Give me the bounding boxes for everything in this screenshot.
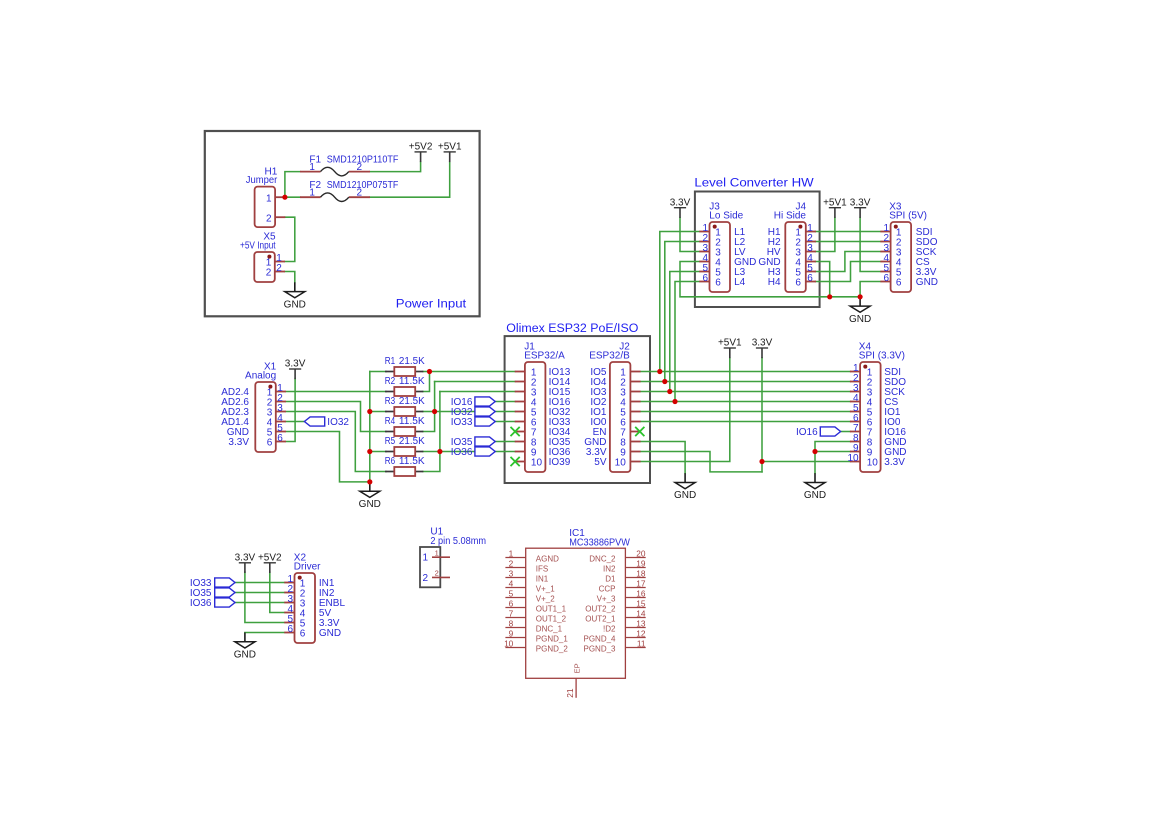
svg-text:3.3V: 3.3V: [228, 437, 249, 448]
svg-text:2: 2: [266, 268, 272, 279]
svg-text:9: 9: [509, 629, 514, 639]
wire X4.9 GND: [815, 451, 850, 453]
svg-text:11.5K: 11.5K: [399, 376, 425, 387]
ground GND (level conv): [849, 297, 871, 325]
frame Power Input box: [205, 131, 480, 316]
svg-text:R1: R1: [385, 356, 396, 367]
net flag IO36 (to J1.9): [475, 447, 495, 456]
U1 pin stubs: [432, 556, 450, 558]
svg-text:EP: EP: [572, 663, 581, 673]
svg-text:CCP: CCP: [599, 585, 616, 594]
svg-text:2: 2: [435, 569, 439, 578]
svg-text:V+_2: V+_2: [536, 595, 555, 604]
svg-text:1: 1: [266, 193, 272, 204]
wire IO0 row J2.6 to X4.6: [641, 421, 850, 423]
svg-text:DNC_1: DNC_1: [536, 625, 563, 634]
svg-text:SPI (5V): SPI (5V): [889, 211, 927, 222]
svg-text:D1: D1: [605, 575, 616, 584]
svg-text:6: 6: [287, 624, 293, 635]
svg-text:OUT1_2: OUT1_2: [536, 615, 567, 624]
resistor R4 11.5K: [385, 416, 425, 436]
svg-text:Level Converter HW: Level Converter HW: [694, 176, 814, 190]
no-connect J1.7: [511, 427, 520, 436]
svg-text:GND: GND: [284, 299, 306, 310]
svg-text:16: 16: [636, 589, 646, 599]
net flag IO32 (to X1.4): [304, 417, 324, 426]
resistor R1 21.5K: [385, 356, 425, 376]
svg-text:3.3V: 3.3V: [285, 359, 306, 370]
svg-text:6: 6: [509, 599, 514, 609]
svg-text:10: 10: [615, 458, 627, 469]
junction SDI row / J3.1: [657, 369, 662, 374]
svg-text:!D2: !D2: [603, 625, 616, 634]
svg-text:11.5K: 11.5K: [399, 456, 425, 467]
svg-text:2: 2: [266, 213, 272, 224]
resistor R2 11.5K: [385, 376, 425, 396]
svg-text:DNC_2: DNC_2: [589, 555, 616, 564]
J4 pin stubs: [806, 231, 816, 233]
svg-text:12: 12: [636, 629, 646, 639]
connector U1 2 pin 5.08mm: [420, 526, 486, 587]
connector J3: [699, 202, 756, 292]
wire node to J1.2 IO14: [435, 381, 515, 383]
J2 pin stubs: [630, 371, 640, 373]
resistor R3 21.5K: [385, 396, 425, 416]
svg-text:+5V1: +5V1: [718, 338, 742, 349]
net flag IO36 (to X2.3): [215, 598, 235, 607]
wire CS row J2.4 to X4.4: [641, 401, 850, 403]
svg-text:8: 8: [509, 619, 514, 629]
svg-text:R2: R2: [385, 376, 396, 387]
wire R1 right to node: [423, 371, 429, 373]
connector X3: [880, 202, 938, 292]
connector X2: [284, 553, 345, 643]
svg-text:ESP32/B: ESP32/B: [589, 351, 630, 362]
power +5V2 (X2): [258, 552, 282, 573]
svg-text:PGND_3: PGND_3: [583, 645, 616, 654]
connector J4: [758, 202, 816, 292]
wire R5 right to node: [423, 451, 440, 453]
wire X1.2 AD2.6 to R4: [287, 402, 387, 432]
wire X3.4 CS to J4.6: [816, 262, 881, 282]
X3 pin stubs: [880, 231, 890, 233]
wire 3.3V to X2.5: [245, 572, 284, 623]
svg-text:14: 14: [636, 609, 646, 619]
wire node to J1.1 IO13: [430, 371, 515, 373]
svg-text:21.5K: 21.5K: [399, 436, 425, 447]
X5 pin-1 marker: [267, 255, 271, 259]
svg-text:21.5K: 21.5K: [399, 356, 425, 367]
wire H1.1 to F2.1: [285, 196, 300, 198]
svg-text:2: 2: [509, 559, 514, 569]
wire R1/R3/R5 GND vertical: [369, 372, 371, 482]
svg-text:H4: H4: [768, 277, 781, 288]
junction CS row / J3.6: [672, 399, 677, 404]
power +5V2 (power input): [409, 142, 433, 163]
svg-text:3: 3: [509, 569, 514, 579]
frame Olimex ESP32 PoE/ISO box: [505, 336, 650, 483]
IC1 pin stubs and numbers: [505, 557, 525, 559]
svg-text:+5V2: +5V2: [258, 552, 282, 563]
svg-text:17: 17: [636, 579, 646, 589]
svg-text:7: 7: [509, 609, 514, 619]
svg-text:Power Input: Power Input: [396, 296, 467, 310]
wire IO1 row J2.5 to X4.5: [641, 411, 850, 413]
svg-text:6: 6: [300, 629, 306, 640]
svg-text:3.3V: 3.3V: [884, 457, 905, 468]
power +5V1 (esp32): [718, 338, 742, 359]
svg-text:OUT2_1: OUT2_1: [585, 615, 616, 624]
net flag IO16 (to X4.7): [820, 427, 840, 436]
svg-text:OUT2_2: OUT2_2: [585, 605, 616, 614]
svg-text:GND: GND: [804, 490, 826, 501]
svg-text:SMD1210P110TF: SMD1210P110TF: [327, 155, 399, 166]
svg-text:2: 2: [357, 188, 363, 199]
no-connect J2.7: [635, 427, 644, 436]
svg-text:1: 1: [309, 188, 315, 199]
svg-text:PGND_1: PGND_1: [536, 635, 569, 644]
wire H1.2 to X5.1: [285, 217, 295, 261]
svg-text:GND: GND: [849, 314, 871, 325]
wire R5 left: [370, 451, 386, 453]
wire F2.2 to +5V1: [370, 162, 450, 197]
svg-text:ESP32/A: ESP32/A: [524, 351, 565, 362]
power +5V1 (power input): [438, 142, 462, 163]
svg-text:6: 6: [277, 433, 283, 444]
ground GND (X2): [234, 633, 256, 661]
IC1 pin 21 stub: [575, 678, 577, 698]
svg-text:R6: R6: [385, 456, 396, 467]
svg-text:2: 2: [357, 162, 363, 173]
wire 3.3V to X1.6: [287, 379, 296, 442]
X2 pin-1 marker: [298, 576, 302, 580]
svg-text:18: 18: [636, 569, 646, 579]
connector X1: [221, 362, 286, 452]
frame Level Converter HW box: [695, 192, 820, 308]
wire H1.1 to F1.1: [285, 172, 300, 198]
wire IO36 flag to X2.3: [235, 602, 284, 604]
svg-text:3.3V: 3.3V: [752, 338, 773, 349]
svg-text:R5: R5: [385, 436, 396, 447]
wire 3.3V to J3.3: [680, 218, 699, 252]
junction R divider GND / R3: [367, 409, 372, 414]
wire X1.5 GND: [287, 432, 370, 482]
svg-text:IFS: IFS: [536, 565, 548, 574]
wire X4.8 GND down: [815, 442, 850, 474]
J3 pin-1 marker: [713, 225, 717, 229]
svg-text:IN2: IN2: [603, 565, 616, 574]
wire X1.3 AD2.3 to R6: [287, 412, 387, 472]
svg-text:21.5K: 21.5K: [399, 396, 425, 407]
wire IO33 flag to J1.6: [495, 421, 515, 423]
svg-text:AGND: AGND: [536, 555, 559, 564]
svg-text:+5V2: +5V2: [409, 142, 433, 153]
wire X5.2 to GND: [285, 272, 295, 283]
wire IO36 flag to J1.9: [495, 451, 515, 453]
X3 pin-1 marker: [894, 225, 898, 229]
svg-text:1: 1: [509, 549, 514, 559]
X4 pin-1 marker: [863, 365, 867, 369]
wire IO33 flag to X2.1: [235, 582, 284, 584]
svg-text:IO16: IO16: [796, 427, 818, 438]
wire J2.9 3.3V route: [641, 452, 762, 472]
svg-text:IO33: IO33: [451, 417, 473, 428]
connector J2: [584, 342, 640, 472]
svg-text:6: 6: [702, 273, 708, 284]
svg-text:SMD1210P075TF: SMD1210P075TF: [327, 180, 399, 191]
ground GND (resistor divider): [359, 482, 381, 510]
svg-text:4: 4: [509, 579, 514, 589]
wire IO16 flag to X4.7: [841, 431, 851, 433]
connector X4: [847, 342, 906, 472]
svg-text:IN1: IN1: [536, 575, 549, 584]
wire node down to R4 right: [423, 382, 434, 432]
power 3.3V (esp32): [752, 338, 773, 359]
no-connect J1.10: [511, 457, 520, 466]
svg-text:6: 6: [884, 273, 890, 284]
wire node down to R2 right: [423, 372, 429, 392]
wire 3.3V vertical: [761, 358, 763, 472]
junction H1 pin1 node: [282, 195, 287, 200]
junction 3.3V node: [759, 459, 764, 464]
svg-text:2 pin 5.08mm: 2 pin 5.08mm: [430, 536, 486, 547]
wire X2.6 to GND: [245, 632, 284, 634]
wire +5V2 to X2.4: [270, 572, 284, 613]
svg-text:1: 1: [423, 553, 429, 564]
svg-text:3.3V: 3.3V: [235, 552, 256, 563]
svg-text:10: 10: [504, 639, 514, 649]
svg-text:6: 6: [267, 438, 273, 449]
junction R divider GND / R5: [367, 449, 372, 454]
ground GND (X4.8/9): [804, 473, 826, 501]
junction X4 GND node: [812, 449, 817, 454]
power +5V1 (level conv): [823, 197, 847, 218]
power 3.3V (level conv left): [670, 197, 691, 218]
wire R3 left: [370, 411, 386, 413]
power 3.3V (X2): [235, 552, 256, 573]
J4 pin-1 marker: [798, 225, 802, 229]
svg-text:Olimex ESP32 PoE/ISO: Olimex ESP32 PoE/ISO: [506, 321, 638, 335]
wire GND bus (level conv): [680, 262, 860, 297]
X1 pin-1 marker: [268, 385, 272, 389]
wire J3.6 down to IO2 row: [675, 282, 699, 402]
svg-text:Hi Side: Hi Side: [774, 211, 807, 222]
J1 pin stubs: [515, 371, 525, 373]
svg-text:V+_1: V+_1: [536, 585, 555, 594]
svg-text:3.3V: 3.3V: [670, 197, 691, 208]
wire F1.2 to +5V2: [370, 162, 421, 172]
svg-text:GND: GND: [359, 499, 381, 510]
J3 pin stubs: [699, 231, 709, 233]
net flag IO16 (to J1.4): [475, 397, 495, 406]
svg-text:GND: GND: [674, 490, 696, 501]
ground GND (J2.8): [674, 473, 696, 501]
wire J4.2 to X3.2 SDO: [816, 241, 881, 243]
svg-text:MC33886PVW: MC33886PVW: [569, 538, 630, 549]
wire J3.2 down to IO4 row: [665, 242, 699, 382]
svg-text:Driver: Driver: [294, 562, 321, 573]
svg-text:6: 6: [795, 278, 801, 289]
wire node to IO32 flag: [435, 411, 475, 413]
svg-text:IO32: IO32: [327, 417, 349, 428]
connector J1: [515, 342, 571, 472]
wire SDO row J2.2 to X4.2: [641, 381, 850, 383]
ground GND (power input): [284, 282, 306, 310]
svg-text:6: 6: [896, 278, 902, 289]
wire 3.3V to X3.5: [860, 218, 880, 272]
svg-text:1: 1: [309, 162, 315, 173]
svg-text:10: 10: [847, 453, 859, 464]
H1 pin stubs: [275, 196, 285, 198]
wire J4.4 to GND bus: [816, 262, 830, 297]
svg-text:3.3V: 3.3V: [850, 197, 871, 208]
svg-text:5V: 5V: [594, 457, 607, 468]
svg-text:IO36: IO36: [190, 598, 212, 609]
net flag IO35 (to J1.8): [475, 437, 495, 446]
svg-text:5: 5: [509, 589, 514, 599]
wire X3.3 SCK to J4.5: [816, 252, 881, 272]
wire IO35 flag to J1.8: [495, 441, 515, 443]
connector H1: [246, 166, 286, 227]
wire J3.5 down to IO3 row: [670, 272, 699, 392]
svg-text:11: 11: [637, 639, 646, 649]
svg-text:6: 6: [715, 278, 721, 289]
wire +5V1 to J4.3 HV: [816, 218, 835, 252]
svg-text:1: 1: [435, 548, 439, 557]
wire IO35 flag to X2.2: [235, 592, 284, 594]
X2 pin stubs: [284, 582, 294, 584]
resistor R6 11.5K: [385, 456, 425, 476]
svg-text:+5V1: +5V1: [438, 142, 462, 153]
junction SCK row / J3.5: [667, 389, 672, 394]
svg-text:OUT1_1: OUT1_1: [536, 605, 567, 614]
wire IO32 flag to J1.5: [495, 411, 515, 413]
connector X5: [240, 232, 285, 282]
svg-text:21: 21: [565, 688, 575, 698]
X4 pin stubs: [850, 371, 860, 373]
svg-text:15: 15: [636, 599, 646, 609]
wire IO16 flag to J1.4: [495, 401, 515, 403]
net flag IO32 (to J1.5): [475, 407, 495, 416]
svg-text:19: 19: [636, 559, 646, 569]
svg-text:13: 13: [636, 619, 646, 629]
wire X3.6 to GND bus: [860, 282, 880, 297]
svg-text:+5V1: +5V1: [823, 197, 847, 208]
power 3.3V (level conv right): [850, 197, 871, 218]
svg-text:+5V Input: +5V Input: [240, 241, 276, 252]
wire 3.3V node to X4.10: [762, 461, 850, 463]
svg-text:GND: GND: [234, 650, 256, 661]
wire node down to R6 right: [423, 392, 440, 472]
wire J3.1 down to IO5 row: [660, 232, 699, 372]
svg-text:V+_3: V+_3: [597, 595, 616, 604]
wire node to IO36 flag: [440, 451, 475, 453]
wire X1.1 AD2.4 to R2: [287, 391, 387, 393]
wire R3 right to node: [423, 411, 434, 413]
svg-text:IO36: IO36: [451, 447, 473, 458]
junction SDO row / J3.2: [662, 379, 667, 384]
svg-text:Lo Side: Lo Side: [709, 211, 743, 222]
fuse F2 SMD1210P075TF: [300, 180, 398, 201]
svg-text:Analog: Analog: [245, 371, 276, 382]
wire J2.10 5V to +5V1: [641, 358, 730, 462]
wire SDI row J2.1 to X4.1: [641, 371, 850, 373]
svg-text:PGND_4: PGND_4: [583, 635, 616, 644]
svg-text:SPI (3.3V): SPI (3.3V): [859, 351, 905, 362]
net flag IO35 (to X2.2): [215, 588, 235, 597]
junction R5/R6 node: [437, 449, 442, 454]
svg-text:Jumper: Jumper: [246, 175, 278, 186]
resistor R5 21.5K: [385, 436, 425, 456]
svg-text:GND: GND: [319, 628, 341, 639]
IC IC1 MC33886PVW: [504, 528, 646, 698]
svg-text:R4: R4: [385, 416, 396, 427]
net flag IO33 (to J1.6): [475, 417, 495, 426]
junction GND bus / J4.4: [827, 294, 832, 299]
svg-text:L4: L4: [734, 277, 746, 288]
X1 pin stubs: [276, 391, 286, 393]
svg-text:10: 10: [531, 458, 543, 469]
wire X1.4 AD1.4 to IO32 flag: [287, 421, 305, 423]
fuse F1 SMD1210P110TF: [300, 155, 398, 176]
X5 pin stubs: [275, 261, 285, 263]
svg-text:10: 10: [867, 458, 879, 469]
junction GND bus / X3.6: [858, 294, 863, 299]
power 3.3V (X1): [285, 359, 306, 380]
wire J4.1 to X3.1 SDI: [816, 231, 881, 233]
svg-text:IO39: IO39: [549, 457, 571, 468]
svg-text:PGND_2: PGND_2: [536, 645, 569, 654]
wire R1 left: [370, 371, 386, 373]
wire SCK row J2.3 to X4.3: [641, 391, 850, 393]
junction R divider GND bottom: [367, 479, 372, 484]
svg-text:R3: R3: [385, 396, 396, 407]
svg-text:2: 2: [423, 573, 429, 584]
svg-text:20: 20: [636, 549, 646, 559]
junction R1/R2 node: [427, 369, 432, 374]
svg-text:GND: GND: [916, 277, 938, 288]
net flag IO33 (to X2.1): [215, 578, 235, 587]
svg-text:6: 6: [807, 273, 813, 284]
wire J2.8 GND down: [641, 442, 685, 474]
junction R3/R4 node: [432, 409, 437, 414]
svg-text:11.5K: 11.5K: [399, 416, 425, 427]
wire node to J1.3 IO15: [440, 391, 515, 393]
svg-text:2: 2: [276, 263, 282, 274]
